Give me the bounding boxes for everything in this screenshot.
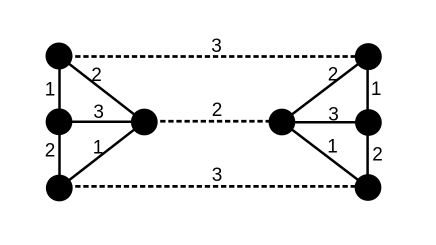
node C (bottom-left) xyxy=(46,175,73,202)
svg-text:2: 2 xyxy=(372,144,383,165)
wire: dashed edge C-H (bottom) xyxy=(59,185,368,188)
wire: edge F-G xyxy=(366,57,369,123)
wire: edge A-D xyxy=(59,56,144,122)
node G (middle-right) xyxy=(355,109,382,136)
svg-text:3: 3 xyxy=(328,105,339,126)
wire: edge H-E xyxy=(282,122,368,188)
wire: edge B-D xyxy=(59,121,144,124)
node A (top-left) xyxy=(46,43,73,70)
svg-text:1: 1 xyxy=(371,79,382,100)
wire: edge F-E xyxy=(282,57,368,123)
node H (bottom-right) xyxy=(355,174,382,201)
svg-text:2: 2 xyxy=(212,100,223,121)
svg-text:2: 2 xyxy=(45,141,56,162)
node F (top-right) xyxy=(355,43,382,70)
svg-text:2: 2 xyxy=(91,65,102,86)
svg-text:1: 1 xyxy=(93,138,104,159)
node E (center-right) xyxy=(269,109,296,136)
wire: edge C-D xyxy=(59,122,144,188)
wire: edge A-B xyxy=(58,56,61,122)
node B (middle-left) xyxy=(46,108,73,135)
svg-text:2: 2 xyxy=(328,65,339,86)
node D (center-left) xyxy=(131,109,158,136)
svg-text:3: 3 xyxy=(211,36,222,57)
wire: edge B-C xyxy=(58,122,61,188)
wire: dashed edge D-E (middle) xyxy=(144,120,282,123)
wire: edge G-E xyxy=(282,121,368,124)
svg-text:1: 1 xyxy=(327,137,338,158)
wire: dashed edge A-F (top) xyxy=(59,55,368,58)
svg-text:3: 3 xyxy=(93,102,104,123)
svg-text:3: 3 xyxy=(212,165,223,186)
svg-text:1: 1 xyxy=(45,79,56,100)
wire: edge G-H xyxy=(366,123,369,188)
